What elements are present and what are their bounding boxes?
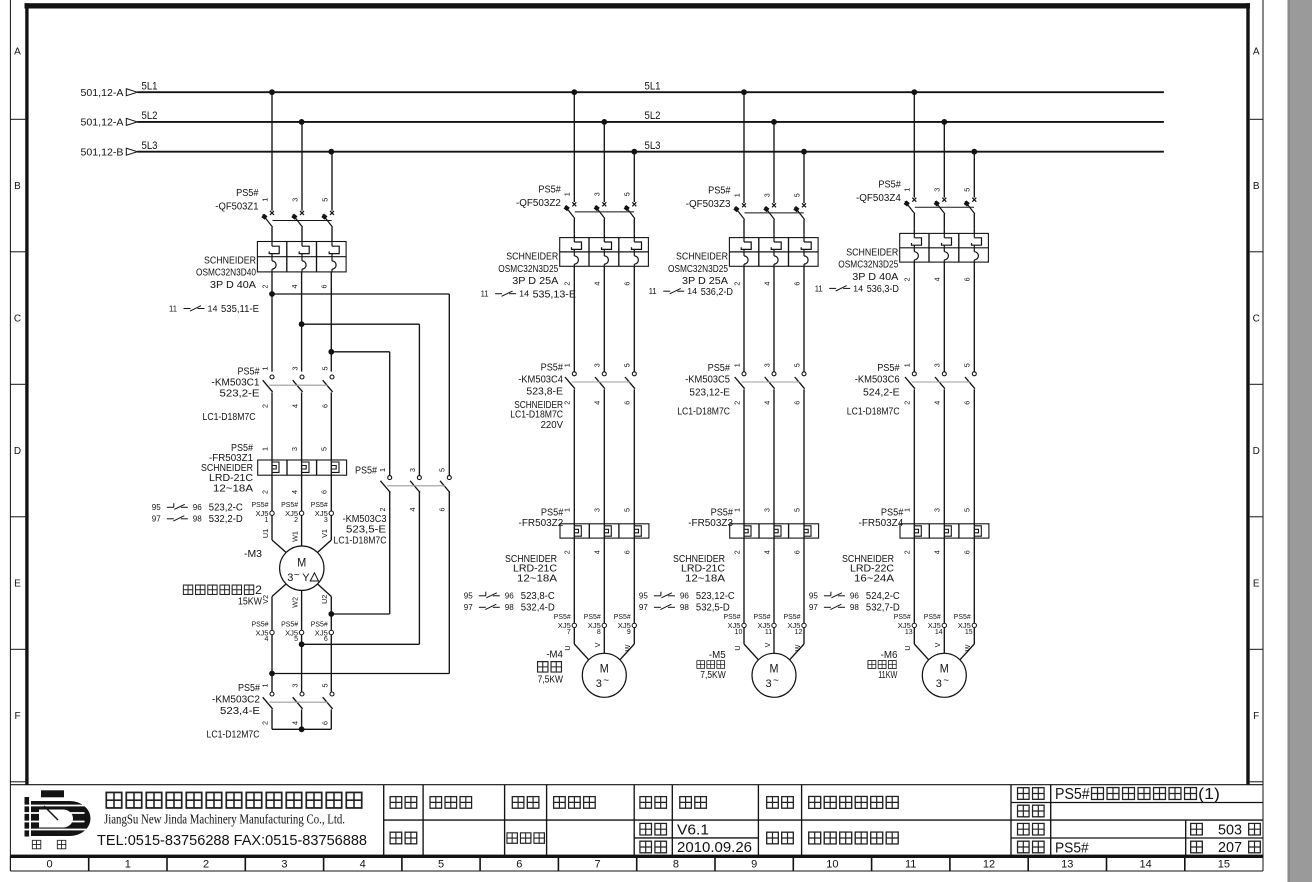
svg-text:5L3: 5L3 bbox=[645, 140, 661, 152]
svg-text:3P D 25A: 3P D 25A bbox=[682, 276, 728, 287]
svg-text:C: C bbox=[1253, 314, 1260, 325]
contactor pole contact at x=574 bbox=[572, 372, 576, 376]
breaker pole contact at x=974 bbox=[972, 198, 976, 202]
svg-text:~: ~ bbox=[603, 676, 609, 687]
svg-text:6: 6 bbox=[623, 550, 632, 554]
svg-text:3: 3 bbox=[762, 508, 771, 512]
svg-text:501,12-A: 501,12-A bbox=[81, 117, 124, 129]
svg-text:V2: V2 bbox=[261, 595, 270, 604]
wire pole 2 QF to KM bbox=[943, 262, 945, 372]
svg-text:2: 2 bbox=[294, 517, 298, 524]
wire pole 1 QF to KM bbox=[913, 262, 915, 372]
svg-text:3P D 25A: 3P D 25A bbox=[512, 276, 558, 287]
svg-text:PS5#: PS5# bbox=[1055, 839, 1089, 856]
svg-text:PS5#: PS5# bbox=[1055, 786, 1090, 803]
svg-text:4: 4 bbox=[290, 285, 299, 289]
arrow source 501,12-A bbox=[126, 89, 137, 96]
svg-text:14: 14 bbox=[208, 304, 219, 313]
svg-text:6: 6 bbox=[320, 404, 329, 408]
svg-text:4: 4 bbox=[933, 277, 942, 281]
svg-text:5L3: 5L3 bbox=[142, 140, 158, 152]
svg-text:98: 98 bbox=[850, 602, 859, 612]
breaker pole contact at x=944 bbox=[942, 198, 946, 202]
breaker pole contact at x=302 bbox=[300, 211, 304, 215]
magnetic release pole 3 bbox=[801, 242, 811, 249]
svg-text:5L2: 5L2 bbox=[142, 110, 158, 122]
svg-text:PS5#: PS5# bbox=[554, 612, 572, 621]
contactor pole contact at x=419 bbox=[417, 476, 421, 480]
svg-text:-KM503C3: -KM503C3 bbox=[343, 514, 387, 525]
wire pole 2 below trip box bbox=[301, 272, 303, 372]
svg-text:OSMC32N3D25: OSMC32N3D25 bbox=[498, 264, 558, 275]
tap junction pole 3 bbox=[328, 349, 334, 355]
svg-text:97: 97 bbox=[152, 513, 161, 523]
heater element pole 2 bbox=[302, 462, 309, 472]
heater element pole 3 bbox=[974, 526, 981, 536]
wire pole 3 QF to KM bbox=[803, 266, 805, 371]
svg-text:5: 5 bbox=[438, 468, 447, 472]
svg-text:3: 3 bbox=[290, 198, 299, 202]
svg-text:3: 3 bbox=[933, 363, 942, 367]
svg-text:B: B bbox=[14, 181, 21, 192]
breaker pole contact at x=634 bbox=[632, 202, 636, 206]
heater element pole 1 bbox=[574, 526, 581, 536]
thermal release pole 3 bbox=[634, 256, 638, 264]
svg-text:1: 1 bbox=[903, 508, 912, 512]
svg-text:PS5#: PS5# bbox=[538, 184, 561, 195]
svg-text:LC1-D18M7C: LC1-D18M7C bbox=[677, 407, 730, 418]
svg-text:536,3-D: 536,3-D bbox=[867, 284, 899, 295]
svg-text:96: 96 bbox=[505, 590, 514, 600]
svg-text:LC1-D18M7C: LC1-D18M7C bbox=[847, 407, 900, 418]
thermal overload relay box bbox=[258, 460, 347, 475]
svg-text:-KM503C2: -KM503C2 bbox=[212, 695, 260, 706]
thermal release pole 3 bbox=[804, 256, 808, 264]
svg-text:PS5#: PS5# bbox=[711, 507, 734, 518]
svg-text:3: 3 bbox=[287, 572, 293, 584]
svg-text:2: 2 bbox=[260, 721, 269, 725]
wire pole 3 below trip box bbox=[330, 272, 332, 372]
svg-text:3: 3 bbox=[596, 678, 602, 690]
svg-text:3: 3 bbox=[593, 508, 602, 512]
svg-text:11: 11 bbox=[169, 304, 178, 313]
svg-text:3: 3 bbox=[290, 447, 299, 451]
svg-text:V: V bbox=[763, 642, 772, 647]
svg-text:Y: Y bbox=[302, 572, 310, 584]
heater element pole 2 bbox=[774, 526, 781, 536]
svg-text:TEL:0515-83756288 FAX:0515-83: TEL:0515-83756288 FAX:0515-83756888 bbox=[97, 833, 367, 849]
svg-text:1: 1 bbox=[260, 367, 269, 371]
gray screen band right bbox=[1288, 0, 1312, 882]
svg-text:PS5#: PS5# bbox=[924, 612, 942, 621]
svg-text:14: 14 bbox=[519, 290, 530, 299]
svg-text:M: M bbox=[940, 664, 949, 676]
wire pole 3 KM to FR bbox=[973, 389, 975, 623]
svg-text:1: 1 bbox=[732, 193, 741, 197]
svg-text:PS5#: PS5# bbox=[877, 363, 900, 374]
contactor linkage bbox=[912, 381, 970, 383]
svg-text:2: 2 bbox=[378, 508, 387, 512]
svg-text:3: 3 bbox=[933, 188, 942, 192]
svg-text:-QF503Z4: -QF503Z4 bbox=[856, 193, 901, 204]
contactor linkage bbox=[741, 381, 799, 383]
svg-text:4: 4 bbox=[265, 636, 269, 643]
wire pole 2 QF to KM bbox=[603, 266, 605, 371]
svg-text:5: 5 bbox=[963, 508, 972, 512]
svg-text:14: 14 bbox=[1139, 859, 1151, 871]
svg-text:6: 6 bbox=[792, 401, 801, 405]
svg-text:5: 5 bbox=[294, 636, 298, 643]
contactor pole contact at x=774 bbox=[772, 372, 776, 376]
svg-text:U1: U1 bbox=[261, 529, 270, 538]
svg-text:4: 4 bbox=[290, 404, 299, 408]
svg-text:6: 6 bbox=[792, 282, 801, 286]
svg-text:1: 1 bbox=[732, 508, 741, 512]
contactor pole contact at x=449 bbox=[447, 476, 451, 480]
svg-text:3: 3 bbox=[290, 367, 299, 371]
trip unit box bbox=[729, 238, 818, 267]
svg-text:3: 3 bbox=[762, 363, 771, 367]
svg-text:2: 2 bbox=[903, 401, 912, 405]
svg-text:535,11-E: 535,11-E bbox=[221, 304, 259, 315]
svg-text:503: 503 bbox=[1218, 822, 1242, 839]
svg-text:W2: W2 bbox=[290, 597, 299, 608]
contactor pole contact at x=914 bbox=[912, 372, 916, 376]
circuit breaker -QF503Z2 bbox=[573, 92, 575, 202]
star point bar bbox=[271, 709, 273, 729]
svg-text:6: 6 bbox=[324, 636, 328, 643]
contactor pole contact at x=302 bbox=[300, 692, 304, 696]
svg-text:~: ~ bbox=[943, 676, 949, 687]
bus 5L1 bbox=[137, 91, 1164, 93]
svg-text:12: 12 bbox=[795, 629, 803, 636]
svg-text:F: F bbox=[14, 711, 20, 722]
svg-text:PS5#: PS5# bbox=[311, 500, 329, 509]
company CN bbox=[106, 792, 121, 807]
svg-text:10: 10 bbox=[826, 859, 838, 871]
svg-text:PS5#: PS5# bbox=[238, 366, 260, 377]
svg-text:523,8-E: 523,8-E bbox=[526, 387, 563, 398]
svg-text:PS5#: PS5# bbox=[881, 507, 904, 518]
frame top thick bbox=[25, 3, 1251, 8]
svg-text:-M6: -M6 bbox=[881, 650, 898, 661]
svg-text:PS5#: PS5# bbox=[784, 612, 802, 621]
svg-text:3: 3 bbox=[762, 193, 771, 197]
svg-text:1: 1 bbox=[903, 188, 912, 192]
svg-text:W: W bbox=[623, 644, 632, 651]
junction on bus 2 bbox=[771, 119, 777, 125]
wire pole 1 KM to FR bbox=[573, 389, 575, 623]
trip unit box bbox=[257, 242, 346, 272]
svg-text:~: ~ bbox=[294, 570, 300, 581]
svg-text:535,13-E: 535,13-E bbox=[533, 289, 577, 300]
heater element pole 3 bbox=[634, 526, 641, 536]
svg-text:2: 2 bbox=[203, 859, 209, 871]
svg-text:OSMC32N3D40: OSMC32N3D40 bbox=[196, 268, 256, 279]
svg-text:1: 1 bbox=[563, 508, 572, 512]
svg-text:2: 2 bbox=[260, 285, 269, 289]
magnetic release pole 1 bbox=[741, 242, 751, 249]
svg-text:3: 3 bbox=[933, 508, 942, 512]
svg-text:4: 4 bbox=[762, 550, 771, 554]
svg-text:532,4-D: 532,4-D bbox=[521, 602, 555, 613]
svg-text:5: 5 bbox=[792, 193, 801, 197]
contactor pole contact at x=332 bbox=[330, 692, 334, 696]
svg-text:W: W bbox=[963, 644, 972, 651]
svg-text:7,5KW: 7,5KW bbox=[700, 670, 726, 681]
svg-text:1: 1 bbox=[563, 192, 572, 196]
svg-text:97: 97 bbox=[464, 602, 473, 612]
svg-text:97: 97 bbox=[809, 602, 818, 612]
svg-text:B: B bbox=[1253, 181, 1260, 192]
svg-text:5: 5 bbox=[623, 363, 632, 367]
svg-text:-QF503Z2: -QF503Z2 bbox=[516, 198, 561, 209]
company logo bbox=[25, 790, 91, 836]
contactor linkage bbox=[572, 381, 630, 383]
svg-text:-KM503C6: -KM503C6 bbox=[855, 375, 900, 386]
heater element pole 2 bbox=[944, 526, 951, 536]
svg-text:A: A bbox=[1253, 47, 1260, 58]
thermal overload relay box bbox=[900, 524, 989, 538]
svg-text:12~18A: 12~18A bbox=[685, 573, 725, 584]
breaker linkage bbox=[915, 206, 974, 208]
svg-text:3: 3 bbox=[766, 678, 772, 690]
svg-text:5L2: 5L2 bbox=[645, 110, 661, 122]
svg-text:9: 9 bbox=[751, 859, 757, 871]
svg-text:D: D bbox=[14, 446, 21, 457]
svg-text:10: 10 bbox=[735, 629, 743, 636]
svg-text:11: 11 bbox=[815, 284, 824, 293]
svg-text:6: 6 bbox=[963, 277, 972, 281]
svg-text:M: M bbox=[770, 664, 779, 676]
junction on bus 2 bbox=[941, 119, 947, 125]
svg-text:U2: U2 bbox=[320, 595, 329, 604]
motor M3 leads bottom bbox=[272, 584, 286, 597]
heater element pole 2 bbox=[604, 526, 611, 536]
svg-text:SCHNEIDER: SCHNEIDER bbox=[201, 463, 253, 474]
svg-text:1: 1 bbox=[260, 198, 269, 202]
svg-text:95: 95 bbox=[809, 590, 818, 600]
svg-text:E: E bbox=[14, 579, 21, 590]
junction on bus 2 bbox=[601, 119, 607, 125]
wire pole 3 QF to KM bbox=[973, 262, 975, 372]
svg-text:3: 3 bbox=[408, 468, 417, 472]
svg-text:532,2-D: 532,2-D bbox=[209, 514, 243, 525]
svg-text:-QF503Z1: -QF503Z1 bbox=[215, 202, 259, 213]
svg-text:536,2-D: 536,2-D bbox=[701, 287, 733, 298]
motor leads bbox=[743, 628, 745, 644]
svg-text:PS5#: PS5# bbox=[252, 500, 270, 509]
wire pole 3 KM to FR bbox=[633, 389, 635, 623]
contactor linkage bbox=[269, 384, 327, 386]
contactor pole contact at x=332 bbox=[330, 375, 334, 379]
svg-text:PS5#: PS5# bbox=[281, 619, 299, 628]
svg-text:4: 4 bbox=[593, 401, 602, 405]
svg-text:6: 6 bbox=[438, 508, 447, 512]
bus 5L3 bbox=[137, 151, 1164, 153]
junction on bus 3 bbox=[328, 149, 334, 155]
junction on bus 1 bbox=[571, 89, 577, 95]
svg-text:5: 5 bbox=[320, 684, 329, 688]
svg-text:-M5: -M5 bbox=[709, 650, 726, 661]
breaker linkage bbox=[575, 211, 634, 213]
svg-text:96: 96 bbox=[850, 590, 859, 600]
magnetic release pole 1 bbox=[572, 242, 582, 249]
svg-text:C: C bbox=[14, 314, 21, 325]
contactor linkage bbox=[269, 701, 327, 703]
magnetic release pole 2 bbox=[602, 242, 612, 249]
svg-text:3P D 40A: 3P D 40A bbox=[210, 280, 256, 291]
svg-text:(1): (1) bbox=[1198, 786, 1220, 803]
svg-text:501,12-A: 501,12-A bbox=[81, 87, 124, 99]
svg-text:M: M bbox=[600, 664, 609, 676]
breaker pole contact at x=914 bbox=[912, 198, 916, 202]
svg-text:523,5-E: 523,5-E bbox=[346, 524, 386, 535]
thermal release pole 3 bbox=[332, 261, 336, 269]
svg-text:LC1-D18M7C: LC1-D18M7C bbox=[334, 536, 387, 547]
svg-text:-M4: -M4 bbox=[546, 650, 563, 661]
breaker pole contact at x=604 bbox=[602, 202, 606, 206]
wire pole 3 QF to KM bbox=[633, 266, 635, 371]
svg-text:14: 14 bbox=[935, 629, 943, 636]
svg-text:PS5#: PS5# bbox=[236, 188, 259, 199]
svg-text:523,12-E: 523,12-E bbox=[689, 387, 730, 398]
svg-text:3P D 40A: 3P D 40A bbox=[852, 272, 898, 283]
circuit breaker -QF503Z3 bbox=[743, 92, 745, 203]
magnetic release pole 1 bbox=[269, 246, 279, 253]
svg-text:4: 4 bbox=[762, 282, 771, 286]
svg-text:1: 1 bbox=[563, 363, 572, 367]
svg-text:U: U bbox=[903, 645, 912, 650]
contactor pole contact at x=634 bbox=[632, 372, 636, 376]
wire pole 2 KM to FR bbox=[773, 389, 775, 623]
svg-text:V1: V1 bbox=[320, 529, 329, 538]
svg-text:3: 3 bbox=[324, 517, 328, 524]
svg-text:1: 1 bbox=[265, 517, 269, 524]
svg-text:5L1: 5L1 bbox=[142, 80, 158, 92]
thermal release pole 3 bbox=[974, 252, 978, 260]
svg-text:JiangSu New Jinda Machinery Ma: JiangSu New Jinda Machinery Manufacturin… bbox=[104, 812, 345, 827]
contactor pole contact at x=272 bbox=[270, 692, 274, 696]
junction on bus 3 bbox=[971, 149, 977, 155]
svg-text:7: 7 bbox=[595, 859, 601, 871]
thermal overload relay box bbox=[730, 524, 819, 538]
magnetic release pole 2 bbox=[299, 246, 309, 253]
svg-text:523,8-C: 523,8-C bbox=[521, 591, 555, 602]
heater element pole 1 bbox=[272, 462, 279, 472]
svg-text:-FR503Z3: -FR503Z3 bbox=[688, 518, 733, 529]
svg-text:11: 11 bbox=[481, 290, 490, 299]
svg-text:F: F bbox=[1253, 711, 1259, 722]
svg-text:7,5KW: 7,5KW bbox=[538, 674, 564, 685]
svg-text:1: 1 bbox=[125, 859, 131, 871]
svg-text:524,2-E: 524,2-E bbox=[863, 387, 900, 398]
contactor pole contact at x=944 bbox=[942, 372, 946, 376]
svg-text:E: E bbox=[1253, 579, 1260, 590]
svg-text:6: 6 bbox=[516, 859, 522, 871]
svg-text:15: 15 bbox=[1218, 859, 1230, 871]
heater element pole 3 bbox=[804, 526, 811, 536]
svg-text:6: 6 bbox=[320, 490, 329, 494]
magnetic release pole 1 bbox=[912, 238, 922, 245]
svg-text:4: 4 bbox=[360, 859, 366, 871]
svg-text:PS5#: PS5# bbox=[708, 363, 731, 374]
motor leads bbox=[573, 628, 575, 644]
svg-text:SCHNEIDER: SCHNEIDER bbox=[676, 252, 728, 263]
svg-text:PS5#: PS5# bbox=[355, 466, 377, 477]
svg-text:6: 6 bbox=[623, 282, 632, 286]
thermal release pole 1 bbox=[272, 261, 276, 269]
motor circle bbox=[582, 653, 626, 697]
svg-text:8: 8 bbox=[597, 629, 601, 636]
svg-text:PS5#: PS5# bbox=[238, 683, 260, 694]
wire pole 2 KM to FR bbox=[943, 389, 945, 623]
svg-text:SCHNEIDER: SCHNEIDER bbox=[204, 256, 256, 267]
svg-text:V6.1: V6.1 bbox=[677, 822, 709, 839]
wire pole 1 KM to FR bbox=[743, 389, 745, 623]
svg-text:5: 5 bbox=[438, 859, 444, 871]
junction on bus 3 bbox=[801, 149, 807, 155]
magnetic release pole 3 bbox=[632, 242, 642, 249]
svg-text:LC1-D12M7C: LC1-D12M7C bbox=[207, 729, 260, 740]
bus 5L2 bbox=[137, 121, 1164, 123]
svg-text:OSMC32N3D25: OSMC32N3D25 bbox=[668, 264, 728, 275]
svg-text:PS5#: PS5# bbox=[724, 612, 742, 621]
svg-text:SCHNEIDER: SCHNEIDER bbox=[846, 247, 898, 258]
svg-text:D: D bbox=[1253, 446, 1260, 457]
svg-text:9: 9 bbox=[627, 629, 631, 636]
junction on bus 1 bbox=[741, 89, 747, 95]
svg-text:PS5#: PS5# bbox=[894, 612, 912, 621]
svg-text:PS5#: PS5# bbox=[281, 500, 299, 509]
heater element pole 1 bbox=[914, 526, 921, 536]
thermal release pole 1 bbox=[574, 256, 578, 264]
motor circle bbox=[922, 653, 966, 697]
svg-text:11: 11 bbox=[905, 859, 916, 871]
wire pole 1 below trip box bbox=[271, 272, 273, 372]
bottom ruler band bbox=[10, 855, 1263, 858]
svg-text:U: U bbox=[563, 645, 572, 650]
svg-text:5: 5 bbox=[320, 367, 329, 371]
svg-text:15KW: 15KW bbox=[238, 597, 262, 608]
svg-text:5: 5 bbox=[792, 363, 801, 367]
svg-text:PS5#: PS5# bbox=[541, 507, 564, 518]
svg-text:-KM503C1: -KM503C1 bbox=[212, 378, 260, 389]
junction on bus 1 bbox=[269, 89, 275, 95]
svg-text:1: 1 bbox=[378, 468, 387, 472]
svg-text:1: 1 bbox=[260, 447, 269, 451]
svg-text:4: 4 bbox=[933, 550, 942, 554]
svg-text:1: 1 bbox=[903, 363, 912, 367]
breaker linkage bbox=[745, 212, 804, 214]
svg-text:95: 95 bbox=[152, 502, 161, 512]
wire pole 2 KM to FR bbox=[603, 389, 605, 623]
svg-text:2: 2 bbox=[563, 401, 572, 405]
magnetic release pole 2 bbox=[771, 242, 781, 249]
heater element pole 3 bbox=[332, 462, 339, 472]
svg-text:-FR503Z2: -FR503Z2 bbox=[519, 518, 564, 529]
motor M3 leads top bbox=[271, 515, 273, 540]
wire pole 2 QF to KM bbox=[773, 266, 775, 371]
svg-text:M: M bbox=[297, 558, 306, 570]
breaker pole contact at x=332 bbox=[330, 211, 334, 215]
circuit breaker -QF503Z4 bbox=[913, 92, 915, 197]
svg-text:3: 3 bbox=[593, 192, 602, 196]
svg-text:501,12-B: 501,12-B bbox=[81, 146, 124, 158]
svg-text:5: 5 bbox=[963, 363, 972, 367]
svg-text:95: 95 bbox=[639, 590, 648, 600]
svg-text:-M3: -M3 bbox=[244, 549, 262, 560]
